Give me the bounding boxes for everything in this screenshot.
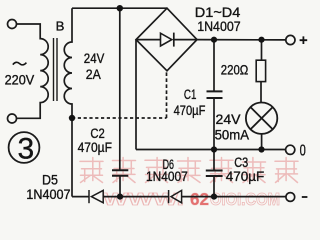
lamp bottom lead: [261, 134, 263, 150]
resistor R column leads: [260, 40, 263, 103]
svg-text:WWW.: WWW.: [103, 189, 184, 209]
junction secondary bottom node: [69, 115, 75, 121]
svg-text:50mA: 50mA: [215, 128, 250, 143]
junction bottom rail / C2: [117, 194, 123, 200]
terminal input top: [8, 20, 17, 29]
junction plus rail / resistor: [258, 37, 264, 43]
svg-text:470µF: 470µF: [174, 103, 206, 118]
wire bridge bottom lead: [166, 71, 168, 118]
watermark url row: [103, 189, 280, 209]
svg-text:C2: C2: [90, 126, 104, 141]
capacitor C3 plates: [206, 171, 223, 177]
wire mid rail to 0 terminal: [136, 149, 286, 151]
plus sign: [300, 36, 308, 44]
junction plus rail / C1: [211, 37, 217, 43]
svg-text:1N4007: 1N4007: [146, 169, 188, 184]
svg-text:B: B: [56, 19, 65, 34]
svg-text:OIOI.COM: OIOI.COM: [210, 189, 280, 209]
minus sign: [302, 196, 308, 198]
svg-text:1N4007: 1N4007: [26, 187, 70, 202]
lamp 24V 50mA: [246, 103, 277, 134]
bridge rectifier D1~D4 diamond: [136, 8, 197, 71]
wire plus rail: [197, 39, 286, 41]
resistor 220ohm body: [256, 60, 265, 81]
diode inside bridge leads: [137, 39, 196, 41]
capacitor C2 lower lead: [119, 176, 121, 197]
diode D6: [169, 190, 182, 203]
svg-text:470µF: 470µF: [78, 140, 112, 155]
capacitor C1 plates: [207, 91, 223, 98]
svg-text:3: 3: [18, 133, 35, 166]
figure number circled 3: [9, 132, 40, 163]
svg-text:220V: 220V: [5, 72, 35, 87]
wire secondary bottom to bridge AC2 (dashed by watermark): [72, 117, 167, 119]
capacitor C1 leads: [213, 40, 215, 150]
wire secondary-bottom down to bottom rail: [71, 118, 73, 197]
junction bottom rail / C3: [211, 194, 217, 200]
tilde AC symbol: [13, 62, 27, 65]
wire top rail secondary to bridge: [72, 7, 167, 9]
terminal output 0: [286, 145, 295, 154]
bottom rail segments: [72, 196, 286, 198]
svg-text:24V: 24V: [216, 112, 241, 127]
watermark chinese row: [80, 158, 103, 183]
terminal output minus: [286, 193, 295, 202]
junction mid rail / C1-C3: [211, 146, 217, 152]
svg-text:0: 0: [300, 142, 306, 159]
svg-text:1N4007: 1N4007: [197, 19, 241, 34]
transformer B secondary winding: [64, 8, 72, 118]
diode inside bridge cathode bar: [173, 33, 175, 47]
junction top rail / C2 branch: [117, 5, 123, 11]
svg-text:2A: 2A: [86, 67, 102, 82]
diode D5: [89, 190, 103, 203]
capacitor C3 leads: [213, 150, 215, 197]
wire bridge minus down: [135, 40, 137, 150]
svg-text:470µF: 470µF: [226, 169, 265, 184]
diode in bridge triangle: [161, 33, 172, 46]
svg-text:C3: C3: [234, 155, 248, 170]
wire C1/C2 column from top junction: [119, 8, 121, 170]
terminal output plus: [286, 35, 295, 44]
junction mid rail / lamp: [258, 146, 264, 152]
transformer B core: [54, 38, 58, 101]
svg-text:D5: D5: [42, 172, 58, 187]
capacitor C2 plates: [112, 170, 128, 176]
svg-text:D1~D4: D1~D4: [195, 5, 241, 20]
svg-text:C1: C1: [184, 87, 197, 102]
svg-text:220Ω: 220Ω: [221, 63, 249, 78]
svg-text:24V: 24V: [84, 51, 105, 66]
svg-text:62: 62: [190, 189, 209, 209]
terminal input bottom: [8, 114, 17, 123]
transformer B primary winding: [17, 24, 49, 118]
